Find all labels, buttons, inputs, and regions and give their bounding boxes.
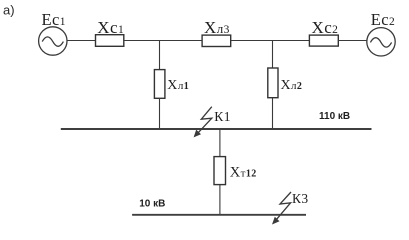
transformer reactance Xt12 <box>214 157 226 185</box>
svg-text:К1: К1 <box>214 109 231 124</box>
wire Xc1 to Xl3 <box>124 40 202 42</box>
reactance Xl1 <box>154 70 165 99</box>
node junction left <box>159 41 161 70</box>
reactance Xc2 <box>309 35 338 46</box>
svg-text:10 кВ: 10 кВ <box>139 198 165 209</box>
wire Xt12 to bus 10 <box>219 185 221 215</box>
wire Xl2 to bus 110 <box>272 98 274 129</box>
bus 110 kV <box>61 128 372 130</box>
wire bus110 to Xt12 <box>219 129 221 157</box>
generator Ec2 <box>367 28 395 56</box>
wire Xl3 to Xc2 <box>231 40 310 42</box>
svg-text:Хл2: Хл2 <box>281 78 303 93</box>
svg-text:110 кВ: 110 кВ <box>319 111 350 122</box>
wire Xc2 to Ec2 <box>338 40 366 42</box>
wire Ec1 to Xc1 <box>67 40 96 42</box>
wire Xl1 to bus 110 <box>159 98 161 129</box>
svg-text:Хл1: Хл1 <box>167 78 189 93</box>
bus 10 kV <box>132 214 306 216</box>
svg-text:а): а) <box>3 3 15 18</box>
reactance Xc1 <box>96 35 124 47</box>
generator Ec1 <box>39 27 67 55</box>
fault K1 lightning arrow <box>194 107 212 138</box>
reactance Xl3 <box>202 35 231 46</box>
fault K3 lightning arrow <box>272 192 291 225</box>
svg-text:К3: К3 <box>292 191 309 206</box>
reactance Xl2 <box>268 68 278 98</box>
node junction right <box>272 41 274 69</box>
